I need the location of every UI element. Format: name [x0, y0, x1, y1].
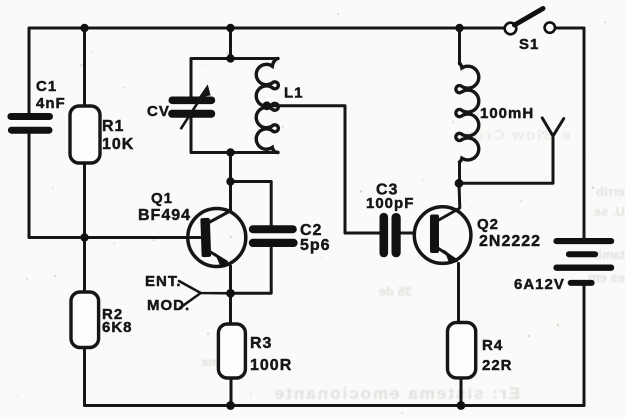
svg-text:2N2222: 2N2222 [479, 233, 541, 250]
svg-text:6A12V: 6A12V [514, 276, 565, 293]
svg-text:100R: 100R [250, 357, 292, 374]
svg-text:10K: 10K [102, 136, 134, 153]
svg-text:C1: C1 [36, 78, 57, 95]
svg-text:100pF: 100pF [366, 195, 414, 212]
svg-text:R1: R1 [102, 118, 124, 135]
svg-text:tamb: tamb [594, 247, 625, 262]
svg-text:Q2: Q2 [477, 216, 499, 233]
svg-text:MOD.: MOD. [147, 297, 190, 314]
svg-text:4nF: 4nF [36, 95, 66, 112]
svg-text:ENT.: ENT. [145, 273, 182, 290]
svg-text:errib: errib [596, 184, 625, 199]
svg-text:Q1: Q1 [151, 190, 173, 207]
svg-text:U. se: U. se [594, 204, 625, 219]
svg-text:CV: CV [147, 103, 170, 120]
svg-text:S1: S1 [519, 36, 539, 53]
svg-text:BF494: BF494 [138, 207, 191, 224]
svg-text:Er: sistema emocionante: Er: sistema emocionante [273, 384, 520, 403]
svg-text:22R: 22R [482, 357, 513, 374]
svg-text:100mH: 100mH [480, 105, 534, 122]
svg-text:R4: R4 [482, 337, 503, 354]
svg-text:6K8: 6K8 [102, 319, 133, 336]
svg-text:L1: L1 [284, 85, 304, 102]
svg-text:R3: R3 [250, 335, 272, 352]
svg-text:5p6: 5p6 [300, 237, 331, 254]
svg-text:35 de: 35 de [379, 284, 412, 299]
